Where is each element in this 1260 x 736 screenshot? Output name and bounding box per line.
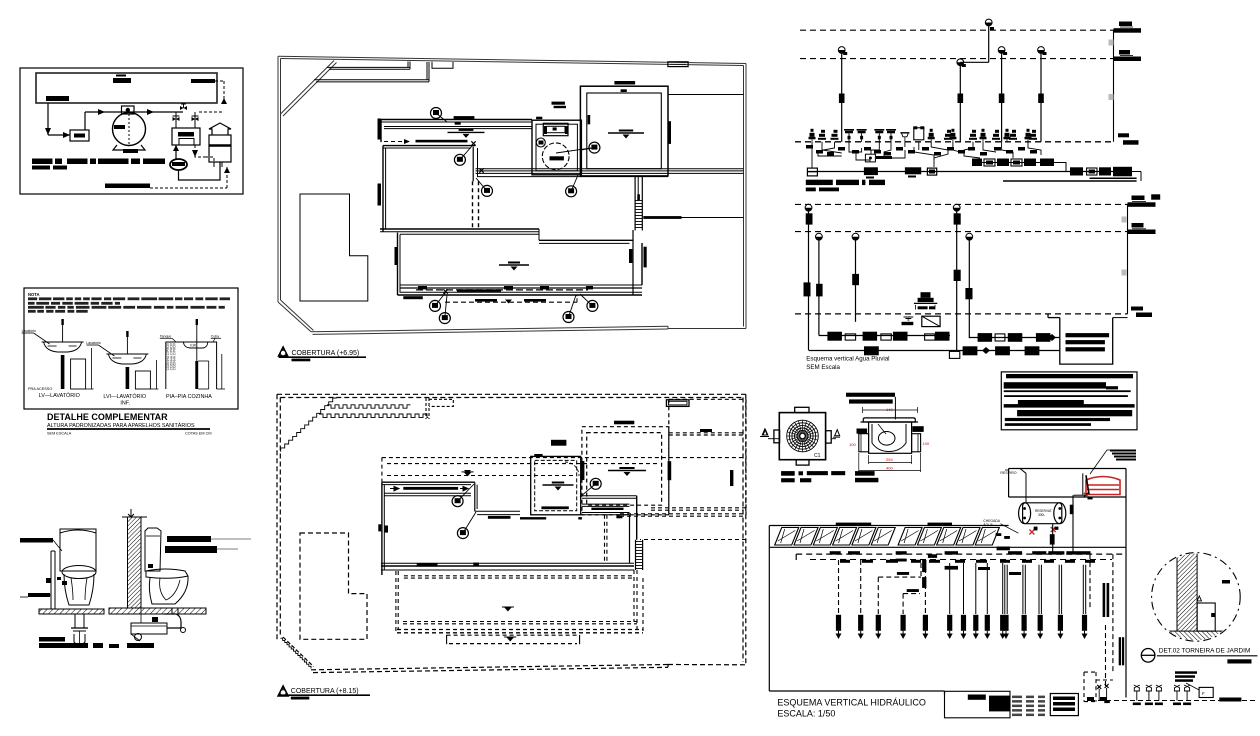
svg-text:DET.02 TORNEIRA DE JARDIM: DET.02 TORNEIRA DE JARDIM	[1159, 648, 1250, 655]
svg-text:Lavatório: Lavatório	[86, 341, 100, 345]
svg-text:ÁGUA: ÁGUA	[983, 523, 993, 527]
svg-text:NOTA: NOTA	[28, 292, 40, 297]
svg-text:F: F	[1202, 691, 1205, 696]
svg-text:ALTURA PADRONIZADAS PARA APARE: ALTURA PADRONIZADAS PARA APARELHOS SANIT…	[47, 422, 195, 429]
svg-text:COTAS EM CM: COTAS EM CM	[185, 432, 212, 436]
svg-text:300L: 300L	[1038, 513, 1045, 517]
svg-text:ESQUEMA VERTICAL HIDRÁULICO: ESQUEMA VERTICAL HIDRÁULICO	[777, 698, 926, 708]
svg-text:COBERTURA (+6.95): COBERTURA (+6.95)	[292, 350, 360, 357]
svg-text:PIA–PIA COZINHA: PIA–PIA COZINHA	[166, 394, 212, 400]
svg-text:140: 140	[886, 407, 893, 412]
svg-text:SEM Escala: SEM Escala	[806, 364, 840, 371]
svg-text:Esquema vertical Agua Pluvial: Esquema vertical Agua Pluvial	[806, 356, 889, 363]
svg-text:COBERTURA (+8.15): COBERTURA (+8.15)	[291, 688, 359, 695]
svg-text:0,90: 0,90	[190, 343, 196, 347]
svg-text:Lavatório: Lavatório	[22, 329, 36, 333]
svg-text:254: 254	[886, 457, 893, 462]
svg-text:100: 100	[923, 441, 930, 446]
svg-text:LV—LAVATÓRIO: LV—LAVATÓRIO	[39, 392, 80, 399]
svg-text:RESPIRO: RESPIRO	[1000, 471, 1016, 475]
svg-text:DETALHE COMPLEMENTAR: DETALHE COMPLEMENTAR	[47, 412, 168, 422]
svg-text:COZINHA C/PROV: COZINHA C/PROV	[173, 342, 177, 370]
svg-text:Tanque: Tanque	[160, 335, 172, 339]
svg-text:PRA ACESSO: PRA ACESSO	[28, 387, 52, 391]
svg-text:LVI—LAVATÓRIO: LVI—LAVATÓRIO	[103, 393, 146, 400]
svg-text:SEM ESCALA: SEM ESCALA	[47, 432, 72, 436]
svg-text:ESCALA: 1/50: ESCALA: 1/50	[777, 709, 835, 719]
svg-text:Cuba: Cuba	[211, 335, 219, 339]
svg-text:400: 400	[886, 466, 893, 471]
svg-text:INF.: INF.	[120, 401, 130, 407]
svg-text:100: 100	[849, 442, 856, 447]
svg-text:C1: C1	[814, 453, 821, 459]
